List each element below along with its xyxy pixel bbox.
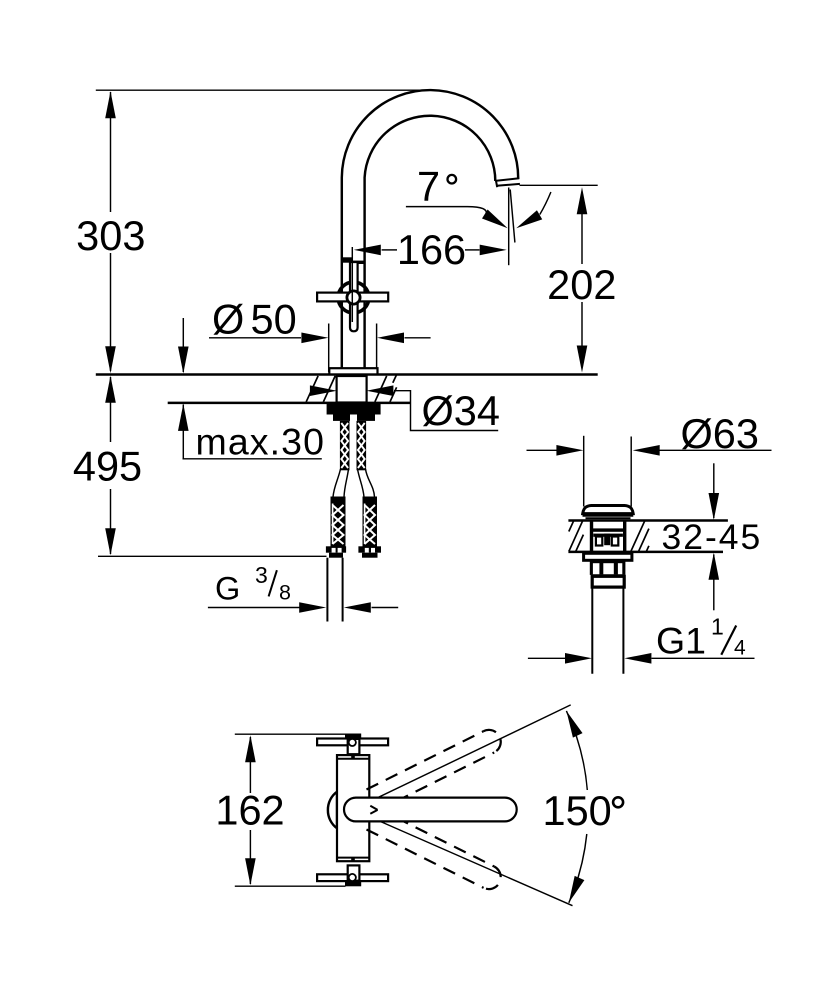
drain flange below deck [584, 553, 632, 560]
dim 166 [382, 249, 397, 251]
495 bottom ref line [98, 555, 327, 557]
svg-text:50: 50 [251, 295, 297, 342]
dim G1 1/4 [528, 657, 565, 659]
dim 202 [581, 213, 583, 264]
slot band [590, 560, 626, 575]
svg-text:4: 4 [734, 636, 746, 659]
svg-text:G: G [215, 570, 240, 606]
threaded studs [340, 421, 366, 470]
202 ext line [520, 184, 598, 186]
7 deg arc [540, 192, 551, 215]
svg-text:max.30: max.30 [196, 420, 326, 462]
dashed spout up [366, 726, 504, 811]
svg-text:202: 202 [547, 261, 616, 308]
svg-text:7: 7 [417, 162, 440, 209]
166 right ext line [508, 188, 510, 266]
washer [333, 415, 350, 421]
svg-text:166: 166 [397, 226, 466, 273]
dim O63 [527, 449, 558, 451]
svg-text:150: 150 [543, 787, 612, 834]
dim Ø34 arrows [310, 385, 337, 396]
solid spout bar [344, 798, 517, 822]
handle spindle [350, 262, 358, 331]
svg-text:1: 1 [711, 613, 724, 639]
dim G3/8 [208, 607, 300, 609]
ext lines [583, 436, 585, 507]
spout outer arc [342, 90, 518, 369]
dim 495 [110, 377, 112, 442]
cap dome [583, 506, 634, 514]
deck hatch [569, 521, 583, 551]
base flange [329, 368, 377, 374]
handle hub [347, 291, 360, 304]
150 arc [566, 711, 587, 790]
svg-text:8: 8 [279, 580, 291, 604]
svg-text:303: 303 [76, 212, 145, 259]
svg-text:3: 3 [255, 562, 268, 588]
hose nuts [326, 546, 346, 552]
hatch left [306, 376, 318, 402]
166 left ext centerline [351, 247, 353, 322]
hose curves [333, 469, 341, 497]
dim Ø50 [328, 324, 330, 373]
lower collar [592, 576, 624, 587]
ext lines 162 [235, 733, 346, 735]
chevron [370, 806, 377, 810]
svg-text:162: 162 [215, 787, 284, 834]
supply hoses threaded [331, 497, 378, 547]
dashed spout down [366, 808, 504, 893]
svg-text:32-45: 32-45 [662, 517, 763, 557]
7 deg leader [406, 207, 486, 215]
spout mouth [495, 178, 519, 181]
dim 303 [110, 92, 112, 212]
hatch right [375, 376, 387, 402]
svg-text:G1: G1 [656, 619, 706, 661]
7 deg tilt line [510, 190, 515, 243]
svg-text:Ø: Ø [212, 295, 244, 342]
handle ring [338, 282, 369, 313]
handle horizontal bar [317, 293, 388, 302]
top handle [345, 734, 361, 739]
angle lines [353, 705, 571, 810]
dim 162 [249, 737, 251, 793]
valve cap black bits [343, 257, 352, 262]
deck lines [568, 519, 728, 521]
shank [337, 376, 367, 403]
locknut [327, 403, 381, 415]
countertop top line [96, 373, 598, 375]
dim max.30 [182, 318, 184, 372]
svg-text:495: 495 [73, 443, 142, 490]
bottom handle [345, 881, 361, 886]
tailpipe [591, 587, 593, 674]
dim 32-45 [713, 463, 715, 518]
supply pipe [326, 558, 328, 622]
drain body through deck [590, 521, 593, 552]
svg-text:Ø63: Ø63 [681, 410, 759, 457]
body [328, 792, 337, 829]
top reference line [96, 89, 430, 91]
spout inner arc [365, 116, 496, 369]
svg-text:Ø34: Ø34 [422, 387, 500, 434]
countertop bottom line [168, 402, 411, 404]
